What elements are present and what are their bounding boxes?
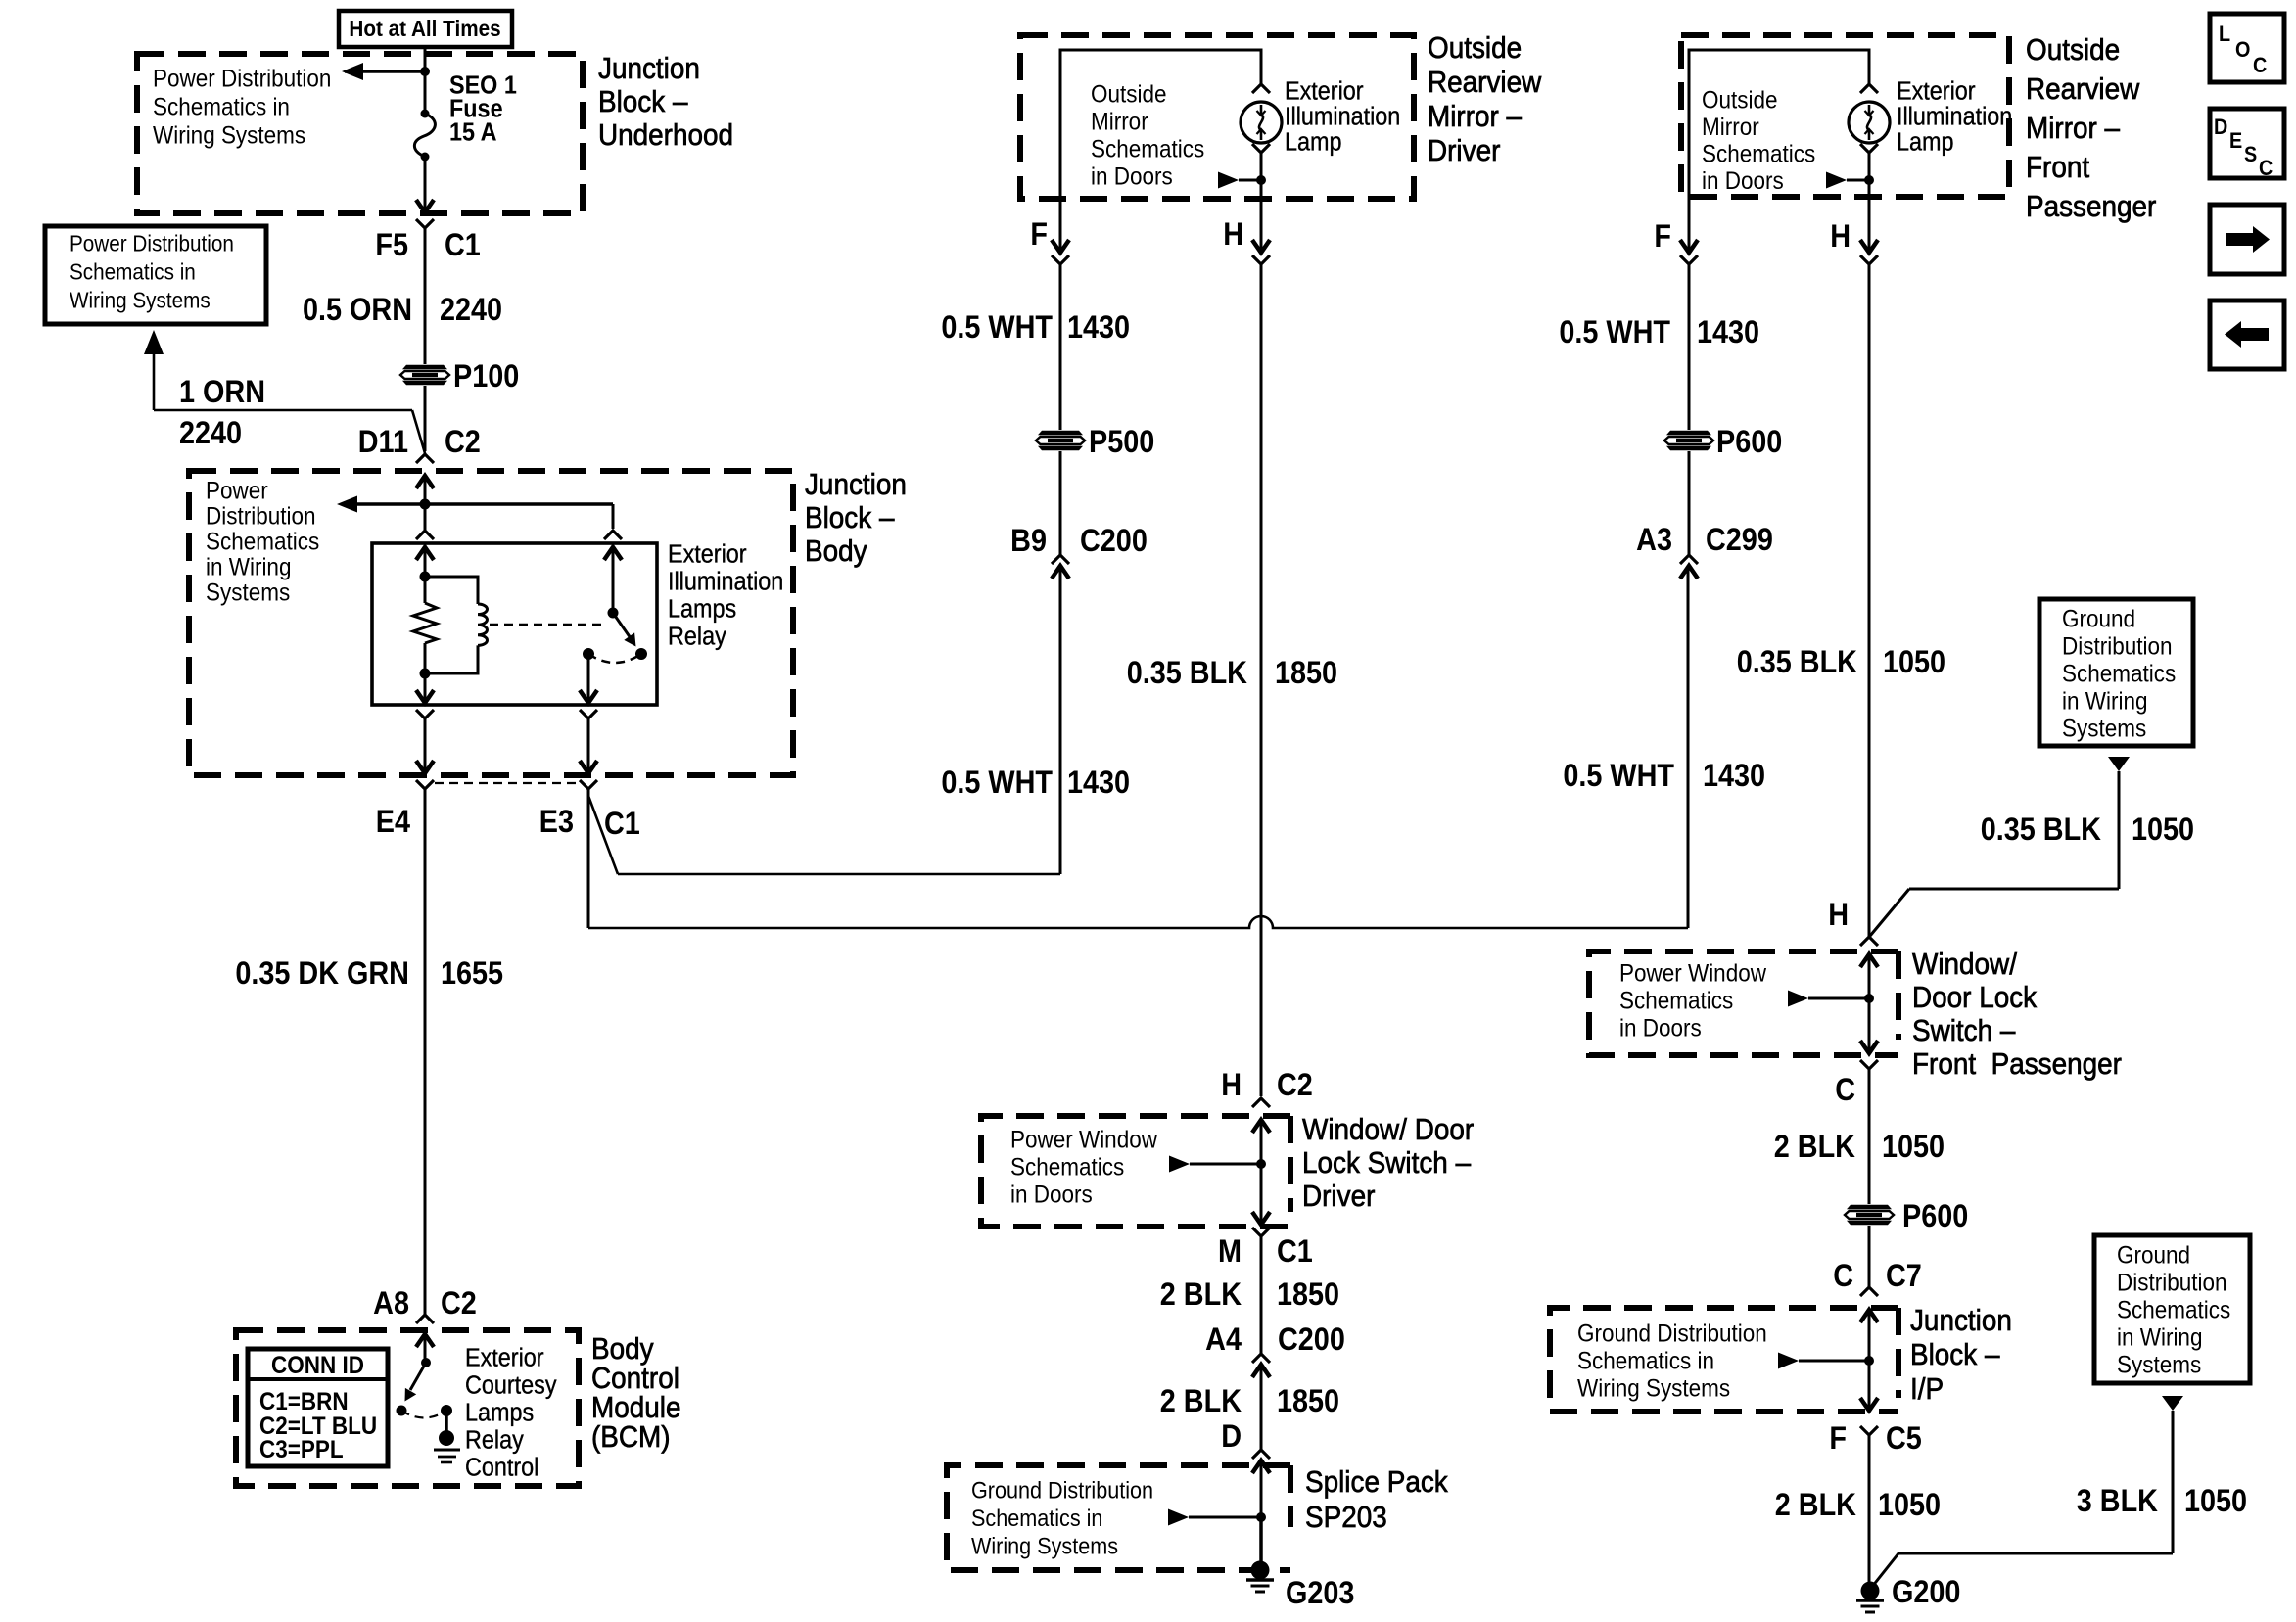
svg-text:15 A: 15 A <box>449 118 497 146</box>
svg-text:C1: C1 <box>604 807 640 842</box>
connector D (splice pack) <box>1252 1450 1270 1459</box>
resistor (relay) <box>424 577 427 603</box>
connector cup F5/C1 <box>416 219 434 228</box>
svg-text:C5: C5 <box>1886 1421 1922 1457</box>
svg-text:2 BLK: 2 BLK <box>1775 1488 1856 1523</box>
solid box: Ground Distribution Schematics in Wiring Systems (lower) <box>2094 1235 2250 1383</box>
svg-text:in Doors: in Doors <box>1010 1181 1093 1208</box>
svg-text:Outside: Outside <box>2026 33 2120 68</box>
arrowhead leaving switch (driver) <box>1252 1212 1270 1225</box>
svg-text:Wiring Systems: Wiring Systems <box>153 121 305 149</box>
arrowhead entering Junction Block - I/P <box>1860 1310 1878 1322</box>
svg-text:Ground: Ground <box>2117 1241 2190 1269</box>
svg-text:I/P: I/P <box>1910 1372 1944 1407</box>
reference arrow (right) <box>1169 1156 1190 1173</box>
svg-text:Door Lock: Door Lock <box>1912 981 2037 1015</box>
connector cup C <box>1860 1060 1878 1069</box>
connector cup D11/C2 <box>416 454 434 463</box>
dashed travel arc (BCM) <box>401 1411 446 1418</box>
svg-text:Lamps: Lamps <box>465 1399 534 1426</box>
svg-text:in Wiring: in Wiring <box>2062 687 2147 715</box>
svg-text:Wiring Systems: Wiring Systems <box>1577 1374 1730 1402</box>
svg-text:in Wiring: in Wiring <box>2117 1323 2202 1351</box>
arrowhead at junction block exit E4 <box>416 761 434 773</box>
svg-text:Power: Power <box>206 477 268 504</box>
svg-text:C7: C7 <box>1886 1259 1922 1294</box>
svg-text:0.5 WHT: 0.5 WHT <box>1563 759 1674 794</box>
svg-text:in Doors: in Doors <box>1702 167 1784 195</box>
ground G203 <box>1251 1561 1270 1580</box>
lamp terminal cup (bottom) <box>1252 144 1270 153</box>
svg-text:Schematics: Schematics <box>1010 1153 1124 1181</box>
svg-text:D: D <box>1221 1419 1242 1455</box>
connector cup E3 <box>580 780 597 789</box>
svg-text:Illumination: Illumination <box>1285 103 1400 130</box>
inline connector P600 <box>1666 431 1711 435</box>
wire: 0.35 BLK 1050 ground branch <box>2118 771 2121 889</box>
svg-text:0.5 WHT: 0.5 WHT <box>941 765 1053 801</box>
svg-text:B9: B9 <box>1010 524 1047 559</box>
svg-text:Block –: Block – <box>1910 1338 2000 1372</box>
svg-text:F: F <box>1654 219 1671 255</box>
svg-text:Exterior: Exterior <box>1897 77 1976 105</box>
svg-text:Junction: Junction <box>598 52 700 86</box>
arrowhead H <box>1252 240 1270 253</box>
svg-text:Window/: Window/ <box>1912 948 2018 982</box>
wire to BCM internal ground <box>445 1411 448 1431</box>
dashed box: Window/Door Lock Switch - Driver (Power Window Schematics in Doors) <box>981 1116 1290 1227</box>
arrowhead entering Window/Door Lock Switch - Driver <box>1252 1120 1270 1133</box>
node: splice junction SP203 <box>1256 1512 1266 1522</box>
svg-text:0.5 WHT: 0.5 WHT <box>941 310 1053 346</box>
svg-text:Mirror: Mirror <box>1091 108 1148 135</box>
dashed box: Body Control Module (BCM) <box>236 1330 579 1486</box>
wire: 0.5 ORN 2240 segment <box>424 300 427 364</box>
solid box: Ground Distribution Schematics in Wiring Systems (upper) <box>2039 599 2193 746</box>
svg-text:O: O <box>2235 38 2250 62</box>
svg-text:Splice Pack: Splice Pack <box>1305 1465 1448 1500</box>
arrowhead at junction block exit <box>416 200 434 212</box>
svg-text:Wiring Systems: Wiring Systems <box>70 288 211 313</box>
svg-text:C2: C2 <box>441 1286 477 1321</box>
reference arrow (right) to Outside Mirror Schematics <box>1218 172 1239 189</box>
BCM driver switch arm <box>410 1363 426 1390</box>
svg-text:Schematics in: Schematics in <box>1577 1347 1714 1374</box>
reference arrow down from ground box (lower) <box>2162 1396 2183 1411</box>
svg-text:Distribution: Distribution <box>2062 632 2172 660</box>
arrowhead at relay exit (coil) <box>416 690 434 703</box>
connector cup A8/C2 <box>416 1315 434 1323</box>
svg-text:Outside: Outside <box>1091 80 1166 108</box>
BCM ground contact <box>441 1405 452 1416</box>
svg-text:Window/ Door: Window/ Door <box>1302 1113 1474 1147</box>
connector cup at relay switch pin <box>604 531 622 539</box>
dashed box: Splice Pack SP203 (Ground Distribution Schematics in Wiring Systems) <box>947 1465 1290 1570</box>
connector cup C/C7 <box>1860 1287 1878 1296</box>
svg-text:C1: C1 <box>445 228 481 263</box>
svg-text:Ground Distribution: Ground Distribution <box>1577 1320 1767 1347</box>
svg-text:1850: 1850 <box>1275 656 1337 691</box>
svg-text:Outside: Outside <box>1702 86 1777 114</box>
svg-text:E: E <box>2229 129 2242 153</box>
wire: H pin exit <box>1260 199 1263 252</box>
wire: F pin exit (passenger) <box>1688 197 1691 252</box>
wire: H pin exit (passenger) <box>1868 197 1871 252</box>
svg-text:Distribution: Distribution <box>206 502 315 530</box>
svg-text:Exterior: Exterior <box>465 1344 544 1371</box>
svg-text:Exterior: Exterior <box>1285 77 1364 105</box>
wire: bus to fuse <box>424 71 427 114</box>
svg-text:Underhood: Underhood <box>598 118 733 153</box>
sidebar box: DESC <box>2210 109 2284 178</box>
svg-text:1 ORN: 1 ORN <box>179 375 265 410</box>
svg-text:Illumination: Illumination <box>1897 103 2012 130</box>
svg-text:0.35 BLK: 0.35 BLK <box>1737 645 1857 680</box>
relay coil <box>425 577 478 604</box>
reference arrow (right) <box>1788 991 1808 1007</box>
relay switch moving contact <box>635 648 647 660</box>
wire: rail to reference arrow <box>345 502 425 506</box>
svg-text:Schematics: Schematics <box>2062 660 2176 687</box>
reference arrow (right) <box>1826 172 1847 189</box>
svg-text:C2: C2 <box>1277 1068 1313 1103</box>
wire: F pin exit <box>1059 199 1062 252</box>
svg-text:Schematics: Schematics <box>1091 135 1204 162</box>
wire: mirror internal loop (passenger) <box>1689 50 1869 197</box>
inline connector P100 <box>402 365 447 369</box>
svg-text:1050: 1050 <box>1878 1488 1941 1523</box>
wire: hot feed from fuse block bus <box>424 47 427 71</box>
svg-text:Systems: Systems <box>2062 715 2146 742</box>
svg-text:Mirror: Mirror <box>1702 114 1759 141</box>
arrowhead into relay (coil side) <box>416 547 434 560</box>
dashed box: Junction Block - Underhood <box>137 54 583 213</box>
svg-text:Mirror –: Mirror – <box>2026 112 2121 146</box>
svg-text:1430: 1430 <box>1067 765 1130 801</box>
svg-text:in Wiring: in Wiring <box>206 553 291 580</box>
svg-text:D11: D11 <box>358 425 408 460</box>
node: coil bottom <box>420 669 431 679</box>
connector A3/C299 <box>1680 555 1698 564</box>
svg-text:C2: C2 <box>445 425 481 460</box>
connector cup F <box>1680 255 1698 264</box>
svg-text:Exterior: Exterior <box>668 540 747 568</box>
svg-text:C200: C200 <box>1080 524 1148 559</box>
svg-text:2 BLK: 2 BLK <box>1160 1384 1242 1419</box>
svg-text:Block –: Block – <box>805 501 895 535</box>
sidebar box: forward arrow <box>2210 205 2284 274</box>
svg-text:1850: 1850 <box>1277 1384 1339 1419</box>
svg-text:Front Passenger: Front Passenger <box>1912 1047 2122 1082</box>
wire: E3 branch diagonal to driver mirror feed <box>588 796 618 874</box>
arrowhead at junction block exit E3 <box>580 761 597 773</box>
svg-text:F: F <box>1829 1421 1847 1457</box>
svg-text:Power Distribution: Power Distribution <box>70 231 234 256</box>
node: junction block ip <box>1864 1356 1874 1366</box>
lamp terminal cup (top) <box>1860 84 1878 93</box>
reference arrow (left) <box>342 63 363 80</box>
wire: fuse output <box>424 157 427 212</box>
solid box: Exterior Illumination Lamps Relay <box>372 543 657 705</box>
arrowhead leaving switch (passenger) <box>1860 1041 1878 1053</box>
node: relay feed junction <box>420 499 431 510</box>
svg-text:0.35 BLK: 0.35 BLK <box>1127 656 1247 691</box>
inline connector P600 (ip) <box>1847 1205 1892 1209</box>
reference arrow down from ground box <box>2108 757 2130 771</box>
svg-text:Lamp: Lamp <box>1897 128 1954 156</box>
dashed box: Outside Rearview Mirror - Driver <box>1020 35 1414 199</box>
reference arrow (left) <box>337 496 357 513</box>
svg-text:2240: 2240 <box>179 416 242 451</box>
svg-text:Relay: Relay <box>465 1426 524 1454</box>
fuse SEO 1 15 A <box>421 110 430 118</box>
dashed travel arc <box>588 654 641 663</box>
svg-text:H: H <box>1221 1068 1242 1103</box>
svg-text:Switch –: Switch – <box>1912 1014 2016 1048</box>
svg-text:C: C <box>1833 1259 1853 1294</box>
wire: rail to relay switch <box>425 502 613 506</box>
lamp: Exterior Illumination Lamp (driver) <box>1241 102 1282 143</box>
svg-text:E4: E4 <box>376 805 410 840</box>
svg-text:Outside: Outside <box>1428 31 1522 66</box>
connector A4/C200 <box>1252 1354 1270 1363</box>
svg-text:Power Window: Power Window <box>1619 959 1767 987</box>
arrowhead entering Window/Door Lock Switch - Front Passenger <box>1860 954 1878 967</box>
wire: reference arrow line to Power Distribution Schematics <box>345 70 425 73</box>
sidebar box: LOC <box>2210 14 2284 82</box>
dashed box: Window/Door Lock Switch - Front Passenger (Power Window Schematics in Doors) <box>1589 951 1898 1055</box>
BCM driver contact <box>397 1406 407 1416</box>
arrowhead F <box>1052 240 1069 253</box>
arrowhead F <box>1680 240 1698 253</box>
svg-text:Schematics in: Schematics in <box>70 259 196 285</box>
arrowhead at relay exit (switch) <box>580 690 597 703</box>
svg-text:0.5 WHT: 0.5 WHT <box>1559 315 1670 350</box>
sidebar box: back arrow <box>2210 301 2284 369</box>
svg-text:Rearview: Rearview <box>2026 72 2140 107</box>
svg-text:P500: P500 <box>1089 425 1154 460</box>
wire: 0.35 DK GRN 1655 to BCM <box>424 789 427 1315</box>
svg-text:1050: 1050 <box>2184 1484 2247 1519</box>
svg-text:Driver: Driver <box>1302 1180 1376 1214</box>
table: CONN ID <box>248 1349 388 1466</box>
connector cup F <box>1052 255 1069 264</box>
reference arrow (right) <box>1168 1509 1189 1526</box>
svg-text:1850: 1850 <box>1277 1277 1339 1313</box>
svg-text:Lock Switch –: Lock Switch – <box>1302 1146 1472 1181</box>
svg-text:C3=PPL: C3=PPL <box>259 1436 344 1463</box>
lamp terminal cup (bottom) <box>1860 144 1878 153</box>
arrowhead up to Power Distribution box <box>144 330 164 354</box>
ground G200 <box>1861 1582 1880 1600</box>
svg-text:1050: 1050 <box>1883 645 1945 680</box>
svg-text:1050: 1050 <box>1882 1130 1945 1165</box>
svg-text:C: C <box>2253 54 2267 77</box>
svg-text:G203: G203 <box>1286 1576 1354 1611</box>
svg-text:0.5 ORN: 0.5 ORN <box>303 293 412 328</box>
svg-text:S: S <box>2244 143 2257 166</box>
wire: E3 branch to passenger mirror feed (with hop) <box>588 916 1688 928</box>
arrowhead H <box>1860 240 1878 253</box>
inline connector P500 <box>1038 431 1083 435</box>
svg-text:P600: P600 <box>1902 1199 1968 1234</box>
svg-text:2 BLK: 2 BLK <box>1774 1130 1855 1165</box>
svg-text:Schematics in: Schematics in <box>153 93 290 120</box>
svg-text:Lamps: Lamps <box>668 595 736 623</box>
dashed box: Junction Block - I/P (Ground Distribution Schematics in Wiring Systems) <box>1550 1308 1898 1412</box>
svg-text:Lamp: Lamp <box>1285 128 1342 156</box>
dashed box: Outside Rearview Mirror - Front Passenger <box>1681 35 2009 197</box>
svg-text:L: L <box>2219 23 2230 46</box>
svg-text:H: H <box>1223 217 1243 253</box>
svg-text:Control: Control <box>465 1454 539 1481</box>
wire: 1 ORN 2240 branch to Power Distribution <box>154 409 412 412</box>
node: bus junction dot <box>420 67 430 76</box>
svg-text:Passenger: Passenger <box>2026 190 2157 224</box>
svg-text:1430: 1430 <box>1067 310 1130 346</box>
svg-text:C: C <box>2259 157 2273 180</box>
svg-text:Junction: Junction <box>1910 1304 2012 1338</box>
svg-text:2 BLK: 2 BLK <box>1160 1277 1242 1313</box>
arrowhead into relay (switch side) <box>604 547 622 560</box>
svg-text:0.35 DK GRN: 0.35 DK GRN <box>235 956 409 992</box>
arrowhead leaving Junction Block - I/P <box>1860 1398 1878 1411</box>
svg-text:Power Distribution: Power Distribution <box>153 65 331 92</box>
svg-text:Power Window: Power Window <box>1010 1126 1158 1153</box>
svg-text:Ground Distribution: Ground Distribution <box>971 1477 1153 1504</box>
node: coil top <box>420 572 431 582</box>
lamp: Exterior Illumination Lamp (passenger) <box>1849 102 1890 143</box>
relay switch arm <box>613 613 631 638</box>
node: BCM driver collector <box>421 1358 431 1367</box>
svg-text:Systems: Systems <box>206 579 290 606</box>
solid box: Power Distribution Schematics in Wiring Systems <box>45 226 266 324</box>
dashed box: Junction Block - Body <box>189 471 793 775</box>
wire: switch output <box>587 654 590 702</box>
svg-text:Schematics: Schematics <box>2117 1296 2230 1323</box>
svg-text:A8: A8 <box>373 1286 409 1321</box>
dashed actuation link <box>490 624 603 626</box>
svg-text:Courtesy: Courtesy <box>465 1371 557 1399</box>
connector cup M/C1 <box>1252 1228 1270 1236</box>
node: switch junction (passenger) <box>1864 994 1874 1003</box>
svg-text:C200: C200 <box>1278 1322 1345 1358</box>
svg-text:CONN ID: CONN ID <box>271 1352 364 1379</box>
power symbol box: Hot at All Times <box>339 11 512 47</box>
svg-text:F: F <box>1030 217 1048 253</box>
reference arrow (right) <box>1778 1353 1799 1369</box>
svg-text:H: H <box>1828 898 1849 933</box>
node: lamp ground junction (passenger) <box>1864 175 1874 185</box>
wire: coil output <box>424 673 427 702</box>
svg-text:Hot at All Times: Hot at All Times <box>349 16 500 41</box>
svg-text:Schematics: Schematics <box>206 528 319 555</box>
connector cup F/C5 <box>1860 1426 1878 1435</box>
connector B9/C200 <box>1052 555 1069 564</box>
connector cup H <box>1860 255 1878 264</box>
svg-text:Relay: Relay <box>668 623 726 650</box>
svg-text:in Doors: in Doors <box>1619 1014 1702 1042</box>
svg-text:1430: 1430 <box>1697 315 1759 350</box>
svg-text:H: H <box>1830 219 1851 255</box>
wire: 3 BLK 1050 ground branch <box>2172 1411 2175 1553</box>
node: lamp ground junction <box>1256 175 1266 185</box>
svg-text:G200: G200 <box>1892 1575 1960 1610</box>
svg-text:Schematics: Schematics <box>1619 987 1733 1014</box>
arrowhead entering BCM <box>416 1334 434 1347</box>
connector cup below relay (switch) <box>580 710 597 718</box>
wire: E3 branch down <box>587 789 590 928</box>
svg-text:Systems: Systems <box>2117 1351 2201 1378</box>
svg-text:2240: 2240 <box>440 293 502 328</box>
relay switch pivot <box>608 608 619 619</box>
connector cup H (passenger switch) <box>1860 937 1878 946</box>
svg-text:M: M <box>1218 1234 1242 1270</box>
svg-text:C1: C1 <box>1277 1234 1313 1270</box>
svg-text:P600: P600 <box>1716 425 1782 460</box>
svg-text:C: C <box>1835 1073 1855 1108</box>
relay switch fixed contact <box>583 648 594 660</box>
wire: below P100 <box>424 386 427 451</box>
svg-text:Junction: Junction <box>805 468 907 502</box>
svg-text:0.35 BLK: 0.35 BLK <box>1981 812 2101 848</box>
svg-text:P100: P100 <box>453 359 519 394</box>
svg-text:Illumination: Illumination <box>668 568 783 595</box>
svg-text:1430: 1430 <box>1703 759 1765 794</box>
wire: splice to ground <box>1259 1517 1263 1564</box>
svg-text:Distribution: Distribution <box>2117 1269 2226 1296</box>
svg-text:1050: 1050 <box>2132 812 2194 848</box>
svg-text:Ground: Ground <box>2062 605 2135 632</box>
svg-text:SP203: SP203 <box>1305 1501 1387 1535</box>
wire: down to relay coil <box>424 504 427 530</box>
svg-text:C299: C299 <box>1706 523 1773 558</box>
svg-text:Front: Front <box>2026 151 2089 185</box>
ground (BCM internal) <box>439 1430 454 1446</box>
svg-text:A4: A4 <box>1205 1322 1242 1358</box>
svg-text:D: D <box>2214 116 2227 139</box>
arrowhead entering Junction Block - Body <box>416 476 434 488</box>
svg-text:E3: E3 <box>539 805 574 840</box>
dashed connector link E4-E3 <box>435 782 579 784</box>
svg-text:Driver: Driver <box>1428 134 1501 168</box>
connector cup below relay (coil) <box>416 710 434 718</box>
svg-text:3 BLK: 3 BLK <box>2077 1484 2158 1519</box>
svg-text:Body: Body <box>805 534 867 569</box>
connector cup at relay coil pin <box>416 531 434 539</box>
wire: mirror internal loop <box>1060 50 1261 199</box>
connector cup H <box>1252 255 1270 264</box>
svg-text:Schematics in: Schematics in <box>971 1505 1102 1531</box>
connector cup H/C2 <box>1252 1098 1270 1107</box>
svg-text:Mirror –: Mirror – <box>1428 100 1523 134</box>
svg-text:A3: A3 <box>1636 523 1672 558</box>
svg-text:in Doors: in Doors <box>1091 162 1173 190</box>
svg-text:F5: F5 <box>375 228 408 263</box>
svg-text:Rearview: Rearview <box>1428 66 1542 100</box>
svg-text:(BCM): (BCM) <box>591 1420 671 1455</box>
svg-text:Block –: Block – <box>598 85 688 119</box>
node: switch junction (driver) <box>1256 1159 1266 1169</box>
lamp terminal cup (top) <box>1252 84 1270 93</box>
svg-text:1655: 1655 <box>441 956 503 992</box>
connector cup E4 <box>416 780 434 789</box>
svg-text:Wiring Systems: Wiring Systems <box>971 1533 1118 1559</box>
svg-text:Schematics: Schematics <box>1702 140 1815 167</box>
